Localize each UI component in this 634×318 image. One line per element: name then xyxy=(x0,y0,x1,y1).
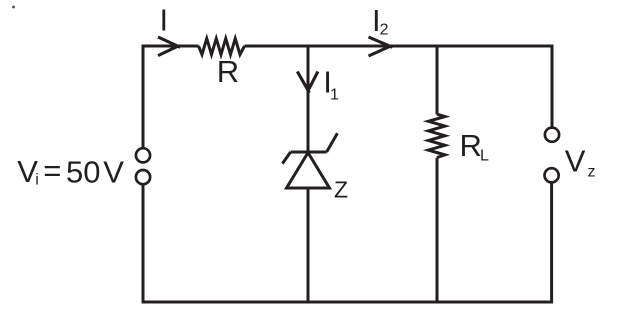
arrow I1 xyxy=(297,72,318,93)
wire RL branch upper xyxy=(436,46,439,115)
wire zener branch lower xyxy=(307,188,310,302)
wire zener branch upper xyxy=(307,46,310,152)
terminal circle left upper xyxy=(136,148,150,162)
arrow I xyxy=(158,37,180,56)
svg-text:50: 50 xyxy=(66,155,100,190)
terminal circle right lower xyxy=(545,168,559,182)
wire bottom xyxy=(142,301,553,304)
svg-text:z: z xyxy=(588,163,596,180)
stray dot top-left xyxy=(12,6,15,9)
svg-text:=: = xyxy=(43,153,61,188)
zener right tick xyxy=(327,133,338,152)
svg-text:V: V xyxy=(103,155,124,190)
wire right vertical upper xyxy=(551,45,554,128)
terminal circle left lower xyxy=(136,170,150,184)
arrow I2 xyxy=(369,37,393,56)
svg-text:V: V xyxy=(565,143,586,178)
resistor RL xyxy=(428,114,445,157)
wire top from resistor to right corner xyxy=(245,45,553,48)
zener left tick xyxy=(282,152,290,164)
svg-text:I: I xyxy=(160,3,169,38)
wire right vertical lower xyxy=(550,182,553,302)
terminal circle right upper xyxy=(545,128,559,142)
svg-text:i: i xyxy=(35,172,39,189)
zener diode Z cathode bar xyxy=(291,151,327,154)
svg-text:2: 2 xyxy=(380,22,389,39)
svg-text:Z: Z xyxy=(334,177,348,203)
svg-text:R: R xyxy=(217,54,239,89)
svg-text:1: 1 xyxy=(330,87,339,104)
wire RL branch lower xyxy=(436,158,439,302)
svg-text:R: R xyxy=(460,128,482,163)
wire left vertical upper with top-left corner xyxy=(143,46,199,148)
svg-text:L: L xyxy=(480,148,489,165)
wire left vertical lower xyxy=(142,184,145,302)
resistor R xyxy=(199,39,245,55)
zener anode triangle xyxy=(287,153,330,188)
